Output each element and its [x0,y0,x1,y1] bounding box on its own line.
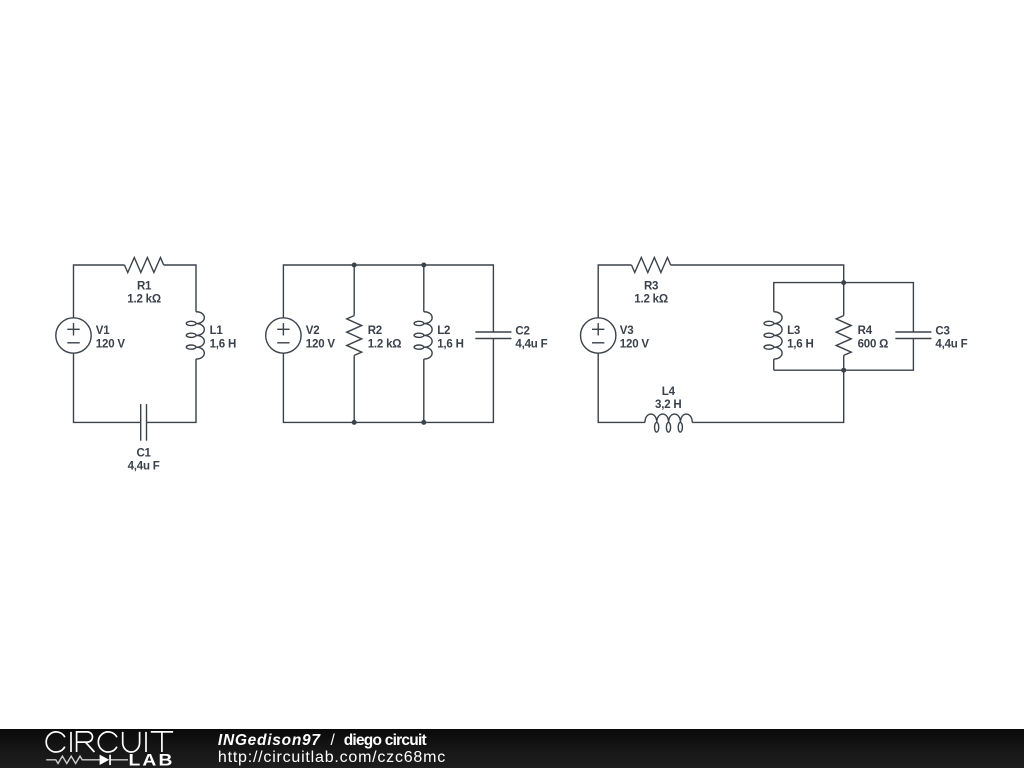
label L3 [787,325,814,350]
svg-text:R3: R3 [644,281,658,293]
capacitor C1 [141,404,147,441]
capacitor C2 [475,332,511,339]
wire circuit2 top rail [283,265,493,332]
node R2 bottom [352,420,357,425]
svg-text:V3: V3 [620,325,634,337]
voltage source V1 [56,318,91,353]
logo letter C2 [98,732,117,752]
svg-text:R2: R2 [368,325,382,337]
svg-text:600 Ω: 600 Ω [858,338,889,350]
wire circuit1 top-left [74,265,125,318]
label C2 [515,325,547,350]
wire circuit3 V3 branch top [598,265,631,318]
label V1 [96,325,126,350]
node box bottom [841,368,846,373]
node junction dots circuit2 [352,263,847,425]
wire R4 branch top [843,283,845,316]
wire R2 branch bottom [353,355,355,422]
inductor L4 [645,414,692,432]
node L2 bottom [421,420,426,425]
footer bar [0,729,1024,768]
wire R4 branch bottom [843,355,845,370]
wire L2 branch [423,265,425,312]
svg-text:R1: R1 [137,281,152,293]
svg-text:C2: C2 [515,325,529,337]
svg-text:4,4u F: 4,4u F [515,339,547,351]
inductor L2 [414,312,432,359]
resistor R2 [347,316,362,356]
svg-text:3,2 H: 3,2 H [655,399,682,411]
logo CIRCUIT text [46,732,173,752]
node box top [841,280,846,285]
wire box to bottom rail [692,370,843,422]
svg-text:4,4u F: 4,4u F [128,461,160,473]
inductor L1 [186,312,204,359]
label V3 [620,325,650,350]
logo diode [100,755,111,766]
voltage source V2 [266,318,301,353]
svg-text:C3: C3 [935,325,949,337]
svg-text:1,6 H: 1,6 H [437,338,464,350]
svg-text:C1: C1 [136,448,151,460]
svg-text:1,6 H: 1,6 H [210,338,237,350]
node R2 top [352,263,357,268]
svg-text:120 V: 120 V [620,338,650,350]
label L4 [655,386,682,411]
svg-text:L2: L2 [437,325,450,337]
svg-text:4,4u F: 4,4u F [935,339,967,351]
wire box bottom rail [774,339,914,371]
svg-text:V2: V2 [306,325,320,337]
logo letter T [151,732,173,752]
logo letter R [77,732,95,752]
wire circuit1 right-bottom [147,359,197,422]
inductor L3 [764,312,782,359]
label R2 [368,325,402,350]
svg-text:V1: V1 [96,325,110,337]
svg-text:120 V: 120 V [306,338,336,350]
svg-text:1.2 kΩ: 1.2 kΩ [634,293,668,305]
logo letter U [123,732,140,752]
logo letter I2 [145,732,147,752]
label R1 [127,281,161,306]
label L1 [210,325,237,350]
wire L2 branch bottom [423,359,425,422]
label R4 [858,325,889,350]
svg-text:http://circuitlab.com/czc68mc: http://circuitlab.com/czc68mc [218,749,445,766]
logo letter I [70,732,72,752]
wire L3 branch bottom [773,359,775,370]
resistor R4 [836,316,851,356]
label V2 [306,325,336,350]
svg-text:1.2 kΩ: 1.2 kΩ [368,338,402,350]
voltage source V3 [581,318,616,353]
label C1 [128,448,160,473]
svg-text:L1: L1 [210,325,224,337]
resistor R1 [125,258,164,273]
label R3 [634,281,668,306]
wire bottom rail to V3 [598,353,645,422]
footer title text [218,732,445,766]
svg-text:L3: L3 [787,325,800,337]
svg-text:1,6 H: 1,6 H [787,338,814,350]
wire circuit1 top-right [164,265,196,312]
logo letter C [46,732,65,752]
svg-text:/: / [331,732,336,749]
wire R2 branch [353,265,355,316]
svg-text:120 V: 120 V [96,338,126,350]
svg-text:INGedison97: INGedison97 [218,732,321,749]
svg-text:1.2 kΩ: 1.2 kΩ [127,293,161,305]
svg-text:LAB: LAB [129,751,175,768]
wire circuit3 top to box [671,265,844,283]
resistor R3 [632,258,671,273]
wire box top rail [774,283,914,332]
capacitor C3 [895,332,931,339]
label L2 [437,325,464,350]
label C3 [935,325,967,350]
wire circuit2 bottom rail [283,339,493,423]
logo schematic wire and resistor [46,756,128,763]
svg-text:diego circuit: diego circuit [344,732,427,749]
svg-text:R4: R4 [858,325,873,337]
svg-text:L4: L4 [662,386,676,398]
wire circuit1 bottom-left [74,353,141,422]
node L2 top [421,263,426,268]
